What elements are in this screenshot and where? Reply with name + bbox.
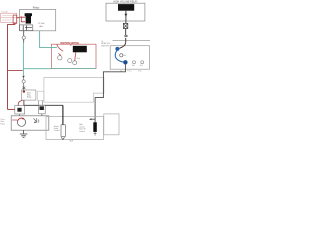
blue connector 2 — [123, 60, 127, 64]
svg-text:Control: Control — [54, 129, 60, 132]
svg-text:Relay: Relay — [27, 97, 31, 99]
inline connector P2 — [22, 80, 25, 83]
wire red jumper — [58, 53, 60, 55]
terminal box2 — [39, 105, 46, 113]
battery fuse block BT1 — [1, 13, 17, 22]
blue hose arc — [115, 51, 124, 63]
svg-text:Red: Red — [77, 58, 80, 60]
wire black glow to bus — [23, 100, 25, 106]
label 12 Volt +Bat — [38, 22, 45, 28]
ram solenoid bar — [93, 122, 97, 132]
wire bus to starter switch — [62, 105, 64, 125]
wire stub box1 to solenoid — [19, 115, 21, 116]
relay K1 coil body — [25, 13, 32, 23]
blue connector 1 — [115, 47, 119, 51]
wire red branch to node A — [8, 69, 23, 71]
battery red connector box — [13, 15, 17, 23]
glow plug relay box — [22, 90, 36, 100]
wire fuse to pump box upper — [125, 38, 127, 43]
wire curve into blue connector — [119, 42, 125, 48]
relay K1 connector block — [20, 25, 33, 31]
label Starter Relay Control — [54, 125, 60, 132]
svg-text:Relay: Relay — [0, 124, 5, 126]
starter solenoid box K2 — [11, 116, 49, 130]
svg-text:SWITCH: SWITCH — [101, 46, 109, 48]
glow plug relay red terminal — [23, 90, 25, 92]
svg-text:+Bat: +Bat — [39, 25, 44, 28]
bottom control panel box — [46, 117, 104, 140]
wire connector P2 down — [23, 83, 25, 90]
inline connector ticks — [124, 35, 127, 36]
splice X mark — [23, 87, 26, 89]
svg-text:Control: Control — [79, 130, 85, 133]
arrowhead down — [125, 14, 128, 17]
terminal box1 — [15, 106, 25, 114]
ignition terminal B — [58, 56, 62, 60]
spare panel box — [104, 114, 119, 135]
wire red bus to terminal box1 — [8, 108, 16, 110]
wire teal relay into ignition — [40, 31, 57, 48]
side accessory box — [38, 91, 44, 100]
wire below fuse F1 — [125, 29, 127, 36]
solenoid contacts — [34, 118, 39, 123]
ignition terminal S — [68, 59, 72, 63]
wire stub — [23, 78, 25, 79]
wire black bottom bus — [24, 104, 63, 106]
ram ground — [94, 132, 97, 135]
ignition switch body — [73, 46, 87, 53]
pressure switch circle — [120, 54, 123, 57]
wire red supply bus — [7, 24, 9, 109]
svg-text:12V BAT: 12V BAT — [1, 10, 9, 13]
wire black relay block down — [23, 31, 25, 36]
wire red glow to terminal box1 — [18, 100, 22, 106]
inline connector P1 — [22, 36, 25, 39]
high volume relay K3 box — [106, 3, 145, 21]
relay K1 box — [20, 10, 56, 31]
label High Launch Ram Off Control — [79, 124, 86, 133]
wire red stub into solenoid — [12, 119, 17, 121]
svg-text:Press: Press — [127, 70, 131, 72]
label Onan Start Relay — [0, 119, 5, 126]
ignition switch box S1 — [51, 44, 96, 68]
label Glow Plug Relay — [27, 92, 32, 98]
caption below pump box — [120, 69, 142, 72]
wire to right edge — [113, 40, 151, 42]
svg-text:12 Volt: 12 Volt — [38, 22, 45, 25]
arrowhead down — [22, 76, 24, 79]
wire teal ignition to node A — [23, 68, 51, 70]
ignition terminal I — [73, 61, 77, 65]
spare port circle 1 — [133, 61, 136, 64]
wire connector P1 down — [23, 39, 25, 42]
wire pump control to ram solenoid — [95, 65, 125, 120]
svg-text:GLW: GLW — [69, 140, 73, 142]
wire legs side box to terminal box2 — [39, 100, 43, 105]
svg-text:Man: Man — [132, 65, 135, 67]
solenoid coil — [17, 118, 25, 127]
wire down from relay K3 — [125, 11, 127, 24]
wire stub box2 to solenoid — [41, 114, 43, 116]
high volume relay K3 body — [118, 4, 134, 11]
wire red ignition feed — [57, 45, 63, 52]
spare port circle 2 — [141, 61, 144, 64]
wire teal down to node A — [22, 43, 24, 69]
ground chevron — [61, 137, 64, 139]
pump control box — [110, 46, 149, 69]
wire teal node A down — [22, 69, 24, 76]
wire battery jog down-left — [8, 23, 15, 24]
ground — [20, 130, 28, 137]
engine bay outline — [44, 78, 104, 103]
label To HIGH VOL SWITCH — [101, 41, 110, 48]
fuse F1 — [123, 23, 127, 28]
wire red switch to terminal I — [75, 52, 76, 60]
wire into ram bar — [94, 119, 96, 122]
svg-text:Relay: Relay — [33, 6, 40, 9]
ignition box teal bottom edge — [51, 68, 96, 70]
relay K1 red terminals — [20, 16, 26, 22]
starter switch S2 — [61, 125, 65, 137]
arrow tick left — [91, 118, 96, 120]
wire battery to relay — [17, 17, 20, 19]
wire red top stub — [70, 44, 72, 46]
svg-text:Prs: Prs — [123, 55, 126, 57]
